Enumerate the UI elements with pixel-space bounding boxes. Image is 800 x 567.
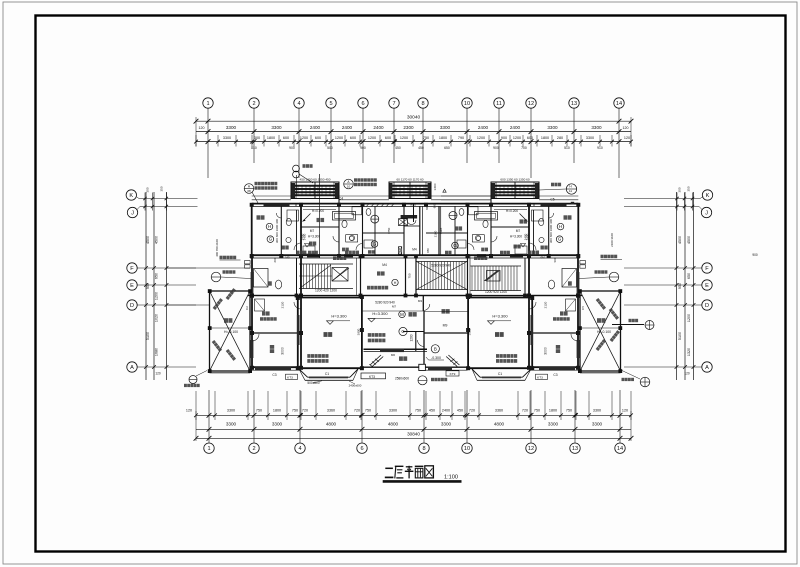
svg-text:500: 500	[327, 146, 333, 150]
svg-text:450 1350 60 1350 450: 450 1350 60 1350 450	[300, 178, 331, 182]
canopy eave lines	[252, 195, 291, 197]
svg-text:3300: 3300	[592, 422, 603, 427]
center master bedroom walls	[362, 295, 468, 297]
wall hatch slashes under center block	[366, 203, 370, 207]
rain pipe line	[319, 174, 321, 258]
svg-text:600: 600	[433, 203, 437, 208]
svg-text:2: 2	[252, 446, 255, 452]
note center bottom	[431, 378, 447, 381]
svg-text:900: 900	[493, 146, 499, 150]
svg-text:300 600 1900 300: 300 600 1900 300	[275, 219, 279, 244]
label hall beam note	[367, 286, 388, 290]
label balcony	[399, 356, 407, 361]
svg-text:600: 600	[385, 136, 391, 140]
axis bubble D right	[702, 300, 712, 310]
svg-text:G: G	[373, 242, 377, 247]
note lines A10a	[354, 178, 377, 181]
label c	[368, 250, 375, 254]
note bottom-left	[184, 384, 200, 387]
stacked bubble	[293, 171, 300, 178]
bottom-left outside bubble	[189, 376, 197, 384]
svg-text:M4: M4	[412, 248, 417, 252]
water room R	[560, 311, 568, 315]
svg-text:13: 13	[572, 446, 578, 452]
water room L	[262, 311, 270, 315]
axis bubble K left	[126, 190, 136, 200]
svg-text:1750: 1750	[387, 227, 391, 234]
svg-text:450: 450	[429, 409, 435, 413]
terrace bubble L	[211, 272, 221, 282]
axis bubble F right	[702, 263, 712, 273]
svg-text:1200: 1200	[368, 136, 376, 140]
svg-text:950: 950	[426, 248, 430, 253]
svg-text:M9: M9	[285, 256, 289, 260]
right side note	[601, 255, 618, 259]
svg-text:H=3.300: H=3.300	[331, 314, 347, 319]
wc L	[268, 281, 272, 285]
top wall window strip	[264, 203, 290, 207]
living west window	[297, 315, 300, 345]
svg-text:G: G	[453, 243, 457, 248]
svg-text:1800: 1800	[267, 136, 275, 140]
svg-text:M7: M7	[392, 305, 396, 309]
svg-text:1800: 1800	[439, 136, 447, 140]
note bottom-right	[622, 378, 635, 381]
terrace bubble label L	[223, 270, 236, 273]
west wall window strips	[251, 272, 254, 298]
label living R	[495, 332, 504, 337]
beam note 2	[368, 339, 386, 343]
svg-text:M: M	[400, 312, 404, 317]
terrace note La2	[213, 298, 223, 310]
svg-text:10: 10	[347, 185, 351, 189]
svg-text:3300: 3300	[586, 136, 594, 140]
bottom dim line row1	[196, 414, 631, 416]
svg-text:H: H	[559, 224, 562, 229]
terrace note Lb2	[226, 349, 236, 361]
terrace note Rb2	[596, 339, 606, 351]
axis line 13 bottom	[574, 390, 576, 443]
svg-text:F: F	[130, 266, 134, 272]
svg-text:3000: 3000	[281, 347, 285, 355]
svg-text:M6: M6	[391, 353, 395, 357]
axis line A right	[624, 366, 702, 368]
axis bubble 14 bottom	[615, 443, 625, 453]
svg-text:3360: 3360	[495, 409, 503, 413]
unit bubbles small	[371, 215, 379, 223]
window C3 left wing	[255, 367, 291, 371]
axis line 10	[466, 108, 468, 163]
axis line 13	[573, 108, 575, 163]
svg-text:4500: 4500	[146, 236, 150, 244]
svg-text:KT3: KT3	[287, 376, 293, 380]
axis line K left	[139, 198, 198, 200]
svg-text:2120: 2120	[281, 301, 285, 308]
label	[528, 251, 539, 255]
svg-text:600: 600	[350, 136, 356, 140]
center hall walls	[403, 206, 405, 255]
axis line 8 bottom	[423, 390, 425, 443]
svg-text:3900: 3900	[356, 328, 360, 335]
svg-text:2400: 2400	[478, 125, 489, 130]
svg-text:900: 900	[360, 146, 366, 150]
svg-text:2400: 2400	[510, 125, 521, 130]
svg-text:3300: 3300	[591, 125, 602, 130]
svg-text:1200 920 1200: 1200 920 1200	[485, 290, 507, 294]
closet lines	[303, 209, 336, 211]
svg-text:G: G	[558, 237, 562, 242]
svg-text:H: H	[268, 224, 271, 229]
svg-text:10: 10	[464, 101, 470, 107]
axis bubble 10	[462, 98, 472, 108]
bottom wall left wing	[252, 366, 301, 368]
note lines A10b	[354, 183, 377, 186]
svg-text:2100 3100: 2100 3100	[610, 233, 614, 247]
svg-text:1680: 1680	[155, 348, 159, 356]
svg-text:120: 120	[684, 372, 690, 376]
bathtub	[333, 212, 356, 221]
svg-text:3000: 3000	[544, 347, 548, 355]
wall x=251.7	[251, 204, 253, 257]
svg-text:C1: C1	[325, 372, 329, 376]
title: er ceng ping mian tu (second floor plan)	[385, 467, 393, 469]
cloak L	[282, 246, 289, 250]
svg-text:650: 650	[155, 273, 159, 279]
axis bubble 5	[326, 98, 336, 108]
bay window C1	[299, 369, 308, 377]
rain pipe bubble	[293, 165, 300, 172]
svg-text:KT9: KT9	[450, 372, 456, 376]
svg-text:650: 650	[444, 146, 450, 150]
stair L flight	[300, 264, 302, 289]
svg-text:1300: 1300	[433, 183, 437, 190]
svg-text:120: 120	[623, 126, 629, 130]
label d	[445, 251, 452, 255]
svg-text:3300: 3300	[226, 125, 237, 130]
svg-text:3300: 3300	[548, 422, 559, 427]
bed symbol	[303, 246, 315, 254]
label b	[308, 251, 318, 255]
svg-text:450: 450	[418, 146, 424, 150]
axis line E right	[624, 284, 702, 286]
svg-text:A: A	[130, 365, 134, 371]
svg-text:2400: 2400	[442, 409, 450, 413]
beam note L2	[307, 359, 328, 363]
balcony front wall center	[364, 348, 428, 350]
svg-text:C3: C3	[272, 373, 276, 377]
svg-text:3300: 3300	[272, 422, 283, 427]
study L rotated	[270, 345, 274, 353]
svg-text:750: 750	[256, 409, 262, 413]
label wash L	[333, 257, 346, 261]
left wing partition y=333	[252, 332, 301, 334]
disinfect note R	[553, 317, 570, 321]
svg-text:5280 920 940: 5280 920 940	[431, 263, 451, 267]
svg-text:2400: 2400	[310, 125, 321, 130]
svg-text:450: 450	[457, 409, 463, 413]
svg-text:C: C	[401, 329, 404, 334]
right rain bubble H/11	[566, 184, 576, 194]
svg-text:1200: 1200	[155, 292, 159, 300]
svg-text:M3: M3	[418, 299, 422, 303]
svg-text:H=3.300: H=3.300	[510, 235, 522, 239]
top dim line row1	[196, 131, 631, 133]
disinfect note L	[260, 317, 277, 321]
axis bubble 2 bottom	[249, 443, 259, 453]
label small	[342, 248, 349, 252]
axis bubble 13	[569, 98, 579, 108]
duct cells with X	[399, 219, 408, 226]
svg-text:600: 600	[273, 257, 277, 262]
svg-text:4800: 4800	[494, 422, 505, 427]
terrace note La	[226, 288, 236, 300]
axis bubble 12	[526, 98, 536, 108]
washbasin counter	[346, 235, 358, 242]
svg-text:1:100: 1:100	[444, 475, 458, 481]
balcony small L	[317, 218, 325, 222]
svg-text:350: 350	[686, 186, 690, 191]
svg-text:M4: M4	[382, 263, 387, 267]
svg-text:750: 750	[534, 409, 540, 413]
axis bubble J left	[127, 207, 137, 217]
svg-text:4500: 4500	[678, 236, 682, 244]
wall x=362.5	[362, 206, 364, 256]
svg-text:1800: 1800	[541, 136, 549, 140]
svg-text:H=-0.100: H=-0.100	[224, 330, 238, 334]
svg-text:120: 120	[199, 126, 205, 130]
svg-text:H=3.300: H=3.300	[372, 311, 388, 316]
svg-text:F: F	[705, 266, 709, 272]
left wing inner wall x=301	[300, 255, 302, 368]
stair band bottom wall	[248, 295, 583, 297]
beam dash b	[424, 311, 468, 313]
svg-text:900: 900	[501, 136, 507, 140]
svg-text:700: 700	[521, 146, 527, 150]
beam note R2	[496, 359, 517, 363]
axis bubble 6	[358, 98, 368, 108]
svg-text:600: 600	[425, 205, 429, 210]
svg-text:1: 1	[207, 446, 210, 452]
svg-text:720: 720	[302, 409, 308, 413]
axis line J left	[140, 206, 198, 208]
axis line E left	[138, 284, 197, 286]
svg-text:3300: 3300	[389, 409, 397, 413]
bottom wall center	[362, 366, 468, 368]
svg-text:750: 750	[415, 409, 421, 413]
right balcony leader	[612, 324, 644, 326]
svg-text:K: K	[706, 193, 710, 199]
mid wall y=256	[250, 254, 415, 256]
svg-text:4800: 4800	[388, 422, 399, 427]
rain hopper label	[629, 319, 639, 322]
axis line 1	[207, 108, 209, 178]
window block W2 top center	[389, 182, 431, 199]
axis bubble 2	[249, 98, 259, 108]
axis line 10 bottom	[466, 390, 468, 443]
bedroom R	[564, 215, 572, 219]
terrace L	[224, 318, 232, 323]
label living L	[324, 332, 333, 337]
svg-text:KT3: KT3	[369, 375, 375, 379]
svg-text:H=3.300: H=3.300	[308, 235, 320, 239]
wall x=339	[338, 199, 340, 257]
axis line F left	[138, 267, 197, 269]
svg-text:1200: 1200	[410, 334, 414, 341]
svg-text:2580x600: 2580x600	[395, 377, 409, 381]
junction box	[419, 364, 426, 370]
svg-text:D: D	[130, 303, 134, 309]
svg-text:300: 300	[254, 136, 260, 140]
left axis vertical dim lines	[145, 192, 147, 380]
left extension lines	[167, 267, 251, 269]
leader bubble A/08	[244, 184, 254, 194]
svg-text:8: 8	[422, 446, 425, 452]
svg-text:300: 300	[678, 187, 682, 192]
stair band side walls	[296, 258, 298, 296]
left unit group (mirrored for right unit)	[208, 182, 528, 380]
top total dim line	[196, 120, 631, 122]
svg-text:3300: 3300	[440, 125, 451, 130]
svg-text:6: 6	[360, 446, 363, 452]
axis bubble 12 bottom	[526, 443, 536, 453]
svg-text:M7: M7	[310, 229, 315, 233]
center bottom bubble	[418, 376, 427, 385]
svg-text:C3: C3	[553, 373, 557, 377]
axis bubble K right	[702, 190, 712, 200]
axis line 11	[498, 108, 500, 163]
svg-text:1800: 1800	[273, 409, 281, 413]
svg-text:C5: C5	[550, 198, 554, 202]
svg-text:6002: 6002	[410, 203, 416, 207]
svg-text:3300: 3300	[441, 422, 452, 427]
axis line 2	[253, 108, 255, 163]
svg-text:450: 450	[395, 146, 401, 150]
axis line 4	[298, 108, 300, 178]
living room walls	[297, 298, 299, 370]
rain label right	[551, 183, 561, 187]
svg-text:1020: 1020	[155, 314, 159, 322]
terrace mid line	[210, 327, 251, 329]
shower stall	[254, 269, 269, 288]
axis bubble 10 bottom	[462, 443, 472, 453]
axis line 8	[422, 108, 424, 163]
axis line 5	[330, 108, 332, 163]
svg-text:2400: 2400	[342, 125, 353, 130]
svg-text:950: 950	[146, 283, 150, 289]
party wall top	[413, 204, 415, 222]
left wing outer wall x=252	[251, 255, 253, 368]
svg-text:720: 720	[354, 409, 360, 413]
svg-text:1320: 1320	[687, 348, 691, 356]
axis bubble G mid-right	[452, 242, 459, 249]
pipe stub	[296, 175, 298, 196]
svg-text:M9: M9	[443, 324, 448, 328]
svg-text:11: 11	[569, 189, 572, 193]
terrace note Lb	[212, 340, 222, 352]
axis bubble 8	[418, 98, 428, 108]
svg-text:H=-0.100: H=-0.100	[597, 330, 611, 334]
svg-text:650: 650	[687, 273, 691, 279]
svg-text:1: 1	[206, 101, 209, 107]
axis bubble 11	[494, 98, 504, 108]
svg-text:KT3: KT3	[537, 376, 543, 380]
svg-text:3300: 3300	[547, 125, 558, 130]
svg-text:6: 6	[361, 101, 364, 107]
terrace bubble R	[609, 272, 619, 282]
svg-text:120: 120	[624, 136, 630, 140]
svg-text:3300: 3300	[227, 409, 235, 413]
stair R1 flight	[418, 262, 420, 290]
svg-text:2400: 2400	[373, 125, 384, 130]
mid wall window segments	[307, 254, 320, 257]
svg-text:H=0.200: H=0.200	[312, 209, 324, 213]
svg-text:H: H	[394, 281, 397, 285]
axis line 14 bottom	[619, 390, 621, 443]
partition y=233 hall	[363, 232, 405, 234]
svg-text:750: 750	[292, 409, 298, 413]
terrace note Ra	[596, 298, 606, 310]
label study center	[442, 309, 450, 314]
axis line K right	[624, 198, 700, 200]
axis line 12	[530, 108, 532, 178]
label laundry	[345, 251, 359, 255]
terrace note Rb	[610, 330, 620, 342]
svg-text:3300: 3300	[271, 125, 282, 130]
svg-text:K: K	[129, 193, 133, 199]
wall x=301	[300, 206, 302, 256]
beam dash a	[363, 310, 424, 312]
axis bubble E right	[702, 280, 712, 290]
svg-text:3360: 3360	[327, 409, 335, 413]
axis line 1 bottom	[208, 390, 210, 443]
svg-text:8: 8	[421, 101, 424, 107]
axis bubble A left	[127, 362, 137, 372]
axis line F right	[624, 267, 702, 269]
svg-text:120: 120	[622, 409, 628, 413]
svg-text:4: 4	[297, 101, 300, 107]
drain slope symbols	[370, 355, 381, 365]
svg-text:2120: 2120	[544, 301, 548, 308]
beam note L1	[307, 354, 328, 358]
axis bubble G mid-left	[371, 241, 378, 248]
bathroom fixtures	[287, 210, 299, 221]
svg-text:C4: C4	[339, 197, 343, 201]
svg-text:750: 750	[408, 273, 412, 278]
svg-text:1200: 1200	[335, 136, 343, 140]
hall door arc	[407, 220, 416, 225]
axis bubble F left	[127, 263, 137, 273]
terrace bubble label R	[595, 270, 608, 273]
svg-text:1200: 1200	[687, 314, 691, 322]
leader bubble A/10	[344, 179, 354, 189]
svg-text:11: 11	[496, 101, 502, 107]
bottom total dim line	[196, 437, 631, 439]
bedroom label right-center	[455, 226, 463, 230]
svg-text:3300: 3300	[593, 409, 601, 413]
axis line D left	[138, 304, 197, 306]
note lines A08b	[255, 186, 278, 189]
svg-text:720: 720	[522, 409, 528, 413]
svg-text:14: 14	[617, 446, 623, 452]
beam note 1	[368, 333, 386, 337]
axis line 7	[393, 108, 395, 163]
svg-text:4800: 4800	[326, 422, 337, 427]
note lines A08a	[255, 182, 278, 185]
axis bubble A right	[702, 362, 712, 372]
axis bubble 14	[614, 98, 624, 108]
svg-text:10: 10	[464, 446, 470, 452]
axis line 4 bottom	[299, 390, 301, 443]
